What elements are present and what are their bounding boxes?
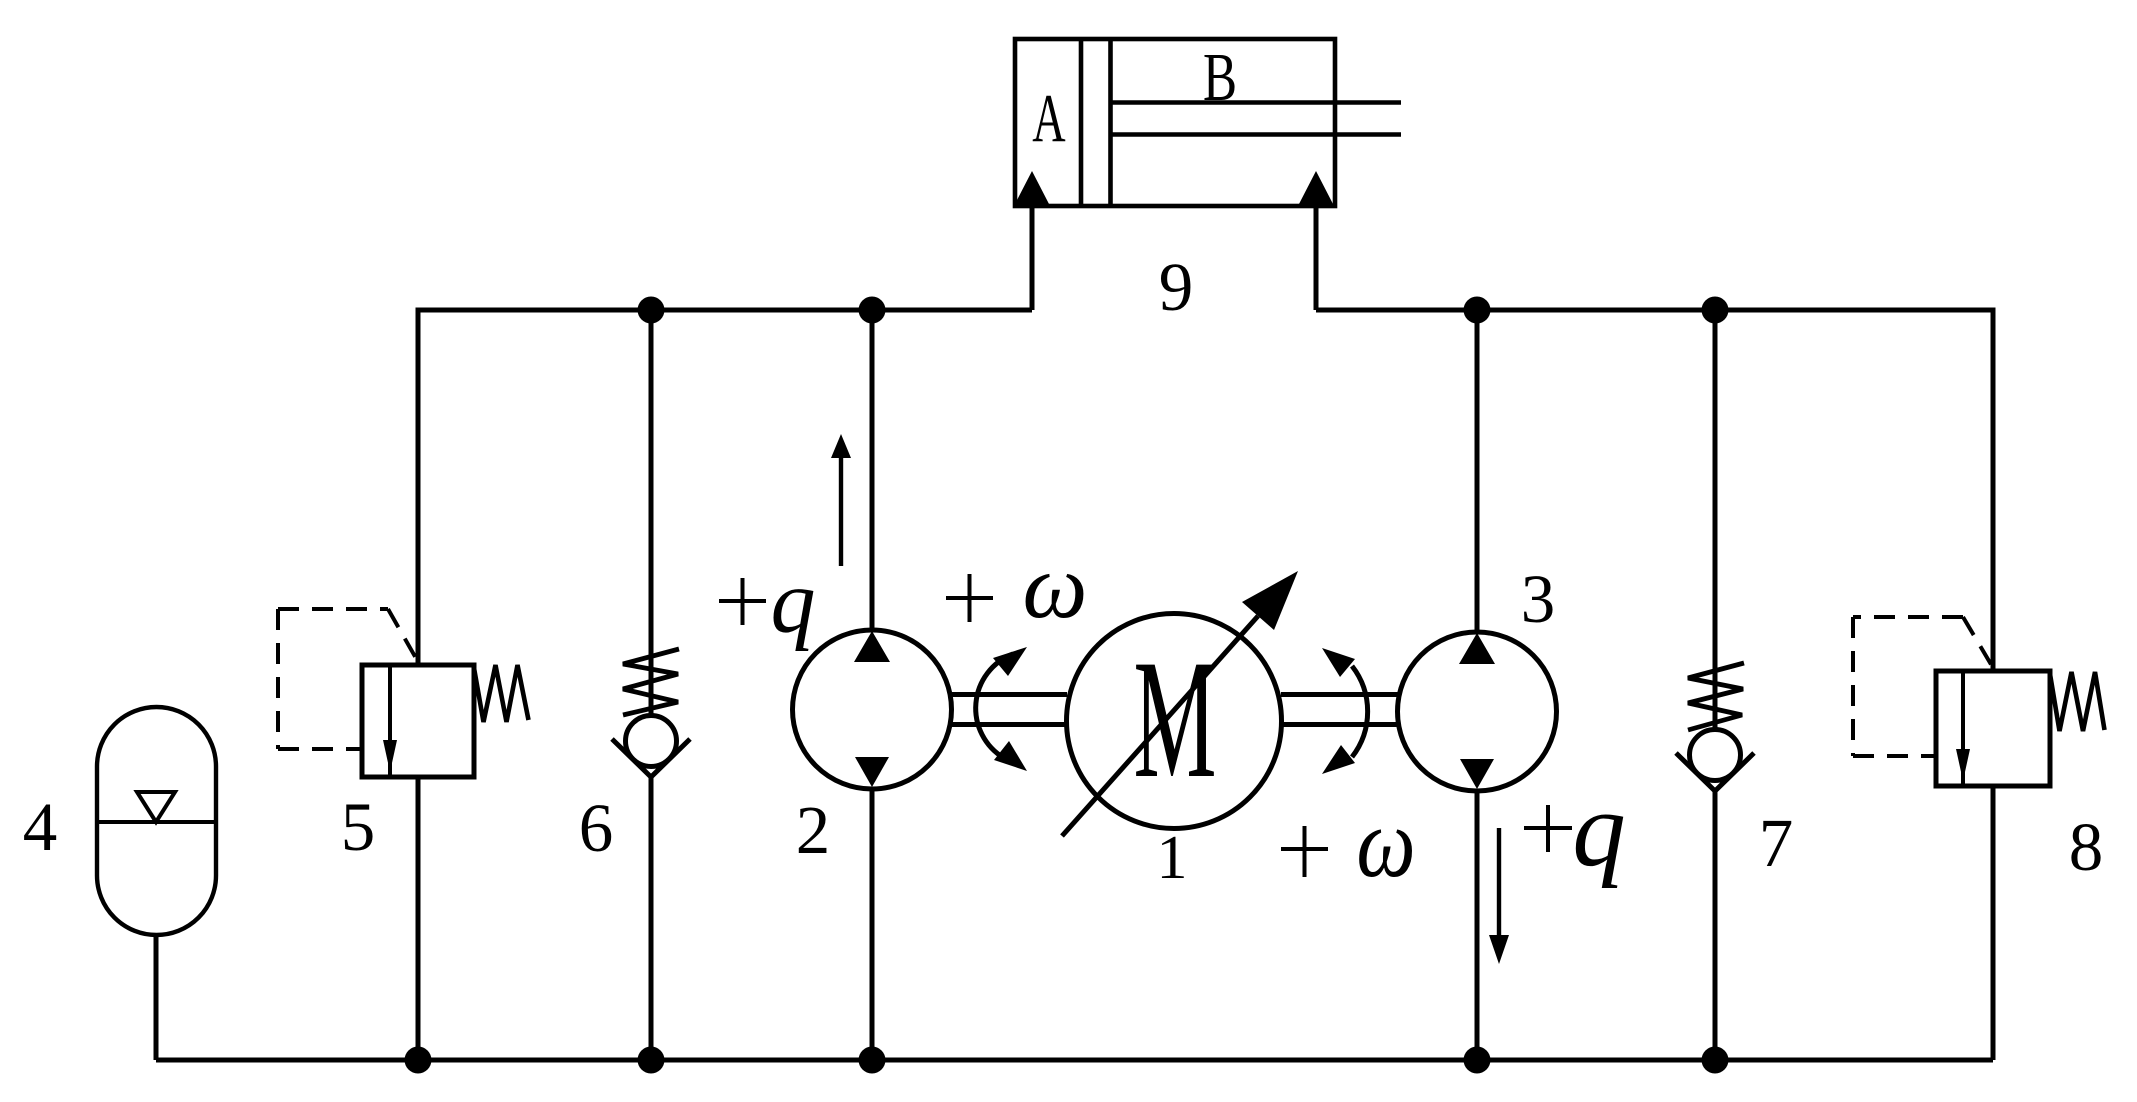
pump 2 bottom triangle xyxy=(855,757,889,787)
pump 2 top triangle xyxy=(854,631,890,662)
wire right edge lower xyxy=(1991,786,1996,1060)
svg-text:8: 8 xyxy=(2069,809,2104,885)
accumulator 4 shell xyxy=(97,707,216,935)
wire pump3 upper xyxy=(1475,310,1480,633)
svg-text:4: 4 xyxy=(23,789,58,865)
cylinder rod xyxy=(1111,100,1401,105)
wire cylinder port A down xyxy=(1030,206,1035,310)
relief valve 8 arrowhead xyxy=(1956,749,1970,781)
wire check6 upper xyxy=(649,310,654,715)
plus sign of +q right xyxy=(1524,826,1572,830)
relief valve 8 body xyxy=(1936,671,2050,786)
accumulator gas triangle xyxy=(137,792,175,822)
check valve 6 seat xyxy=(612,739,690,777)
wire check6 lower xyxy=(649,776,654,1060)
check valve 7 spring xyxy=(1688,663,1744,730)
node dot bottom bus at check7 xyxy=(1702,1047,1729,1074)
flow arrow up at pump2 xyxy=(839,456,843,566)
svg-text:2: 2 xyxy=(796,792,831,868)
cylinder piston xyxy=(1079,41,1084,204)
flow arrow down at pump3 xyxy=(1497,828,1501,936)
wire pump2 lower xyxy=(870,788,875,1060)
node dot top bus at check7 xyxy=(1702,297,1729,324)
svg-text:M: M xyxy=(1133,625,1216,813)
rotation arc left top head xyxy=(993,647,1027,676)
plus sign of +q left xyxy=(719,599,766,603)
wire check7 lower xyxy=(1713,792,1718,1060)
svg-text:A: A xyxy=(1032,80,1065,156)
relief valve 8 spring xyxy=(2050,672,2105,731)
pump 3 bottom triangle xyxy=(1460,759,1494,789)
relief valve 5 flow line xyxy=(388,665,392,777)
wire bottom bus xyxy=(156,1058,1993,1063)
rotation arc right xyxy=(1352,666,1368,757)
svg-text:5: 5 xyxy=(341,789,376,865)
wire check7 upper xyxy=(1713,310,1718,730)
motor 1 variable arrow line xyxy=(1062,616,1258,836)
relief valve 5 arrowhead xyxy=(383,740,397,772)
wire top bus left xyxy=(418,310,1032,665)
shaft motor-pump3 xyxy=(1281,692,1398,697)
wire valve5 lower xyxy=(416,777,421,1060)
svg-text:3: 3 xyxy=(1521,561,1556,637)
cylinder port arrow A xyxy=(1015,171,1049,204)
wire accumulator down xyxy=(154,935,159,1060)
svg-text:7: 7 xyxy=(1759,805,1794,881)
svg-text:9: 9 xyxy=(1159,249,1194,325)
rotation arc left bottom head xyxy=(994,741,1027,771)
node dot top bus at check6 xyxy=(638,297,665,324)
rotation arc right bottom head xyxy=(1322,745,1355,774)
node dot bottom bus at pump3 xyxy=(1464,1047,1491,1074)
relief valve 5 spring xyxy=(474,665,529,722)
node dot bottom bus at valve5 xyxy=(405,1047,432,1074)
svg-text:ω: ω xyxy=(1356,787,1415,897)
plus sign of +w mid xyxy=(946,596,993,600)
pump 3 top triangle xyxy=(1459,633,1495,664)
check valve 7 seat xyxy=(1676,753,1754,791)
motor 1 circle xyxy=(1067,614,1282,829)
shaft pump2-motor xyxy=(951,692,1067,697)
svg-text:B: B xyxy=(1203,40,1237,116)
node dot top bus at pump3 xyxy=(1464,297,1491,324)
pump 2 circle xyxy=(793,630,952,789)
relief valve 8 flow line xyxy=(1961,671,1965,786)
relief valve 5 body xyxy=(362,665,474,777)
rotation arc right top head xyxy=(1322,648,1355,677)
wire cylinder port B down xyxy=(1314,206,1319,310)
wire pump2 upper xyxy=(870,310,875,631)
node dot top bus at pump2 xyxy=(859,297,886,324)
check valve 6 ball xyxy=(626,716,677,767)
svg-text:ω: ω xyxy=(1023,535,1088,637)
cylinder 9 body xyxy=(1015,39,1335,206)
wire pump3 lower xyxy=(1475,790,1480,1060)
svg-text:q: q xyxy=(771,553,816,652)
pump 3 circle xyxy=(1398,632,1557,791)
node dot bottom bus at pump2 xyxy=(859,1047,886,1074)
svg-text:1: 1 xyxy=(1157,824,1188,892)
cylinder port arrow B xyxy=(1299,171,1333,204)
wire top bus right xyxy=(1316,310,1993,671)
check valve 6 spring xyxy=(623,649,679,715)
node dot bottom bus at check6 xyxy=(638,1047,665,1074)
accumulator separator line xyxy=(97,820,216,824)
svg-text:q: q xyxy=(1572,771,1626,889)
plus sign of +w right xyxy=(1281,847,1328,851)
relief valve 5 pilot dashed line xyxy=(278,609,417,749)
relief valve 8 pilot dashed line xyxy=(1853,617,1992,756)
check valve 7 ball xyxy=(1690,730,1741,781)
motor 1 variable arrow head xyxy=(1242,571,1298,630)
svg-text:6: 6 xyxy=(579,790,614,866)
rotation arc left xyxy=(976,654,1013,758)
